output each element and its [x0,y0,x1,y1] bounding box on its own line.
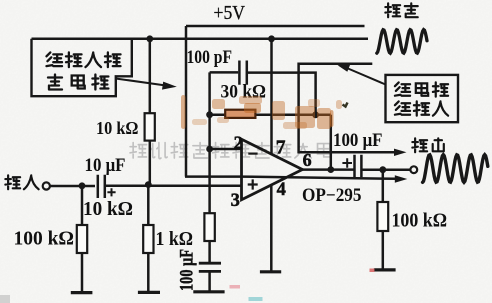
output terminal [410,166,417,173]
noise sine wave (top) [377,30,427,54]
wire output cap to terminal [362,168,410,171]
wire pin 6 output [302,168,354,171]
svg-text:10 kΩ: 10 kΩ [96,118,139,138]
svg-text:OP−295: OP−295 [302,186,362,206]
label Chinese: shuru (input) [5,175,38,189]
red mark at output ground [370,269,375,273]
stamp artifact marks (orange) [181,95,342,129]
wire +5V left drop (x=186 from rail A down to pin3 line) [185,26,188,177]
wire +5V top rail [186,25,365,28]
node feedback left (pin2 column) [206,111,213,118]
svg-text:+5V: +5V [214,3,246,24]
resistor 100k input [77,225,87,253]
svg-text:100 μF: 100 μF [178,249,198,291]
svg-text:100 μF: 100 μF [333,131,383,151]
resistor 100k output load [377,202,388,231]
annotation box: noise in via supply line [386,75,459,122]
resistor 30k feedback [225,110,255,118]
node input / 1k [145,181,152,188]
wire feedback vertical x=210 (pin2 node column) [208,72,211,213]
output sine wave [423,155,488,183]
wire 100k input resistor branch [81,186,84,225]
wire noise path through op-amp to output (pin 3 bias line + arrow shaft) [185,177,398,179]
ground 1k [138,291,160,294]
wire 1k resistor to ground [147,253,150,291]
svg-text:100 kΩ: 100 kΩ [14,228,75,250]
label Chinese: xian shuru line 2 [395,101,448,115]
op-amp inverting minus symbol [248,153,257,155]
arrowhead noise path to output (lower) [395,175,408,182]
label Chinese: zaosheng (noise) [385,3,417,17]
svg-text:1 kΩ: 1 kΩ [156,229,194,250]
wire 100pF right lead to feedback node [248,73,316,115]
teal mark bottom [249,297,263,301]
plus polarity input cap [107,188,115,196]
wire input cap to pin 3 [106,184,242,187]
wire 100k output resistor branch [382,170,385,202]
ground 100uF shunt [193,290,224,293]
ground 100k output [374,268,396,271]
wire noise entry path (+5V rail down to output arrow row) [299,64,397,153]
node rail B / 10k [146,35,153,42]
svg-text:3: 3 [231,191,240,211]
wire lower resistor to 100uF cap [208,241,211,263]
svg-text:10 kΩ: 10 kΩ [83,199,133,220]
capacitor 100uF shunt plates (horizontal) [199,263,221,271]
label Chinese: jing dianyuan (via supply) line 1 [395,82,448,96]
input terminal [43,182,50,189]
wire input terminal to cap [51,185,96,188]
ground pin 4 [260,270,281,273]
watermark text hangzhou jiangrui [130,143,331,159]
resistor lower (inverting network) [204,213,214,241]
label Chinese line 2: zhi dian zu [48,75,108,90]
capacitor 10uF input plates [98,175,105,198]
svg-text:100 pF: 100 pF [187,48,233,68]
arrowhead noise path to output (upper) [394,149,407,156]
node pin 6 / feedback [327,166,334,173]
ground 100k input [71,291,93,294]
svg-text:4: 4 [277,180,286,200]
node rail B / pin7 [268,35,275,42]
resistor 1k [143,225,153,253]
annotation box: via input bias resistor [32,39,132,96]
node output / 100k [379,166,386,173]
capacitor 100uF output plates [355,155,362,177]
label Chinese: shuchu (output) [412,138,443,152]
wire pin 2 to op-amp [210,148,242,151]
arrow from bias box [117,79,165,86]
pink mark bottom left of pin4 ground [230,285,241,289]
svg-text:2: 2 [234,134,243,154]
wire 100pF left lead [210,71,239,74]
gray specks bottom-left corner [0,295,10,303]
node input / 100k [79,182,86,189]
op-amp noninverting plus symbol [248,179,258,189]
label Chinese: jing shuru pianzhi dianzu (via input bias resistor) line 1 [46,52,120,67]
op-amp U1 OP-295 triangle [242,139,303,199]
stamp speck dark [343,103,348,107]
wire +5V rail B (second supply rail, also top edge of bias annotation box) [32,38,369,41]
node pin 2 tap [206,146,213,153]
wire 100k input resistor to ground [81,253,84,292]
wire 10k upper resistor bottom lead to input node [149,141,152,185]
arrow from supply-line box [348,69,386,85]
svg-text:6: 6 [303,150,312,170]
wire feedback down to pin 6 node [330,115,333,170]
svg-text:100 kΩ: 100 kΩ [392,210,448,232]
node feedback / 100pF [312,111,319,118]
wire 1k resistor branch [147,185,150,225]
plus polarity output cap [342,158,352,168]
wire 100k output resistor to ground [382,231,385,269]
svg-text:7: 7 [276,138,286,159]
wire 10k upper resistor top lead from rail B [149,39,152,113]
wire pin 4 to ground [270,184,273,270]
svg-text:10 μF: 10 μF [85,156,126,176]
capacitor 100pF plates [239,61,246,85]
wire feedback horizontal (30k row) [210,113,331,116]
wire 100uF cap to ground [208,272,211,291]
wire pin 7 supply from rail B [270,39,273,155]
resistor 10k upper (bias) [145,113,155,140]
